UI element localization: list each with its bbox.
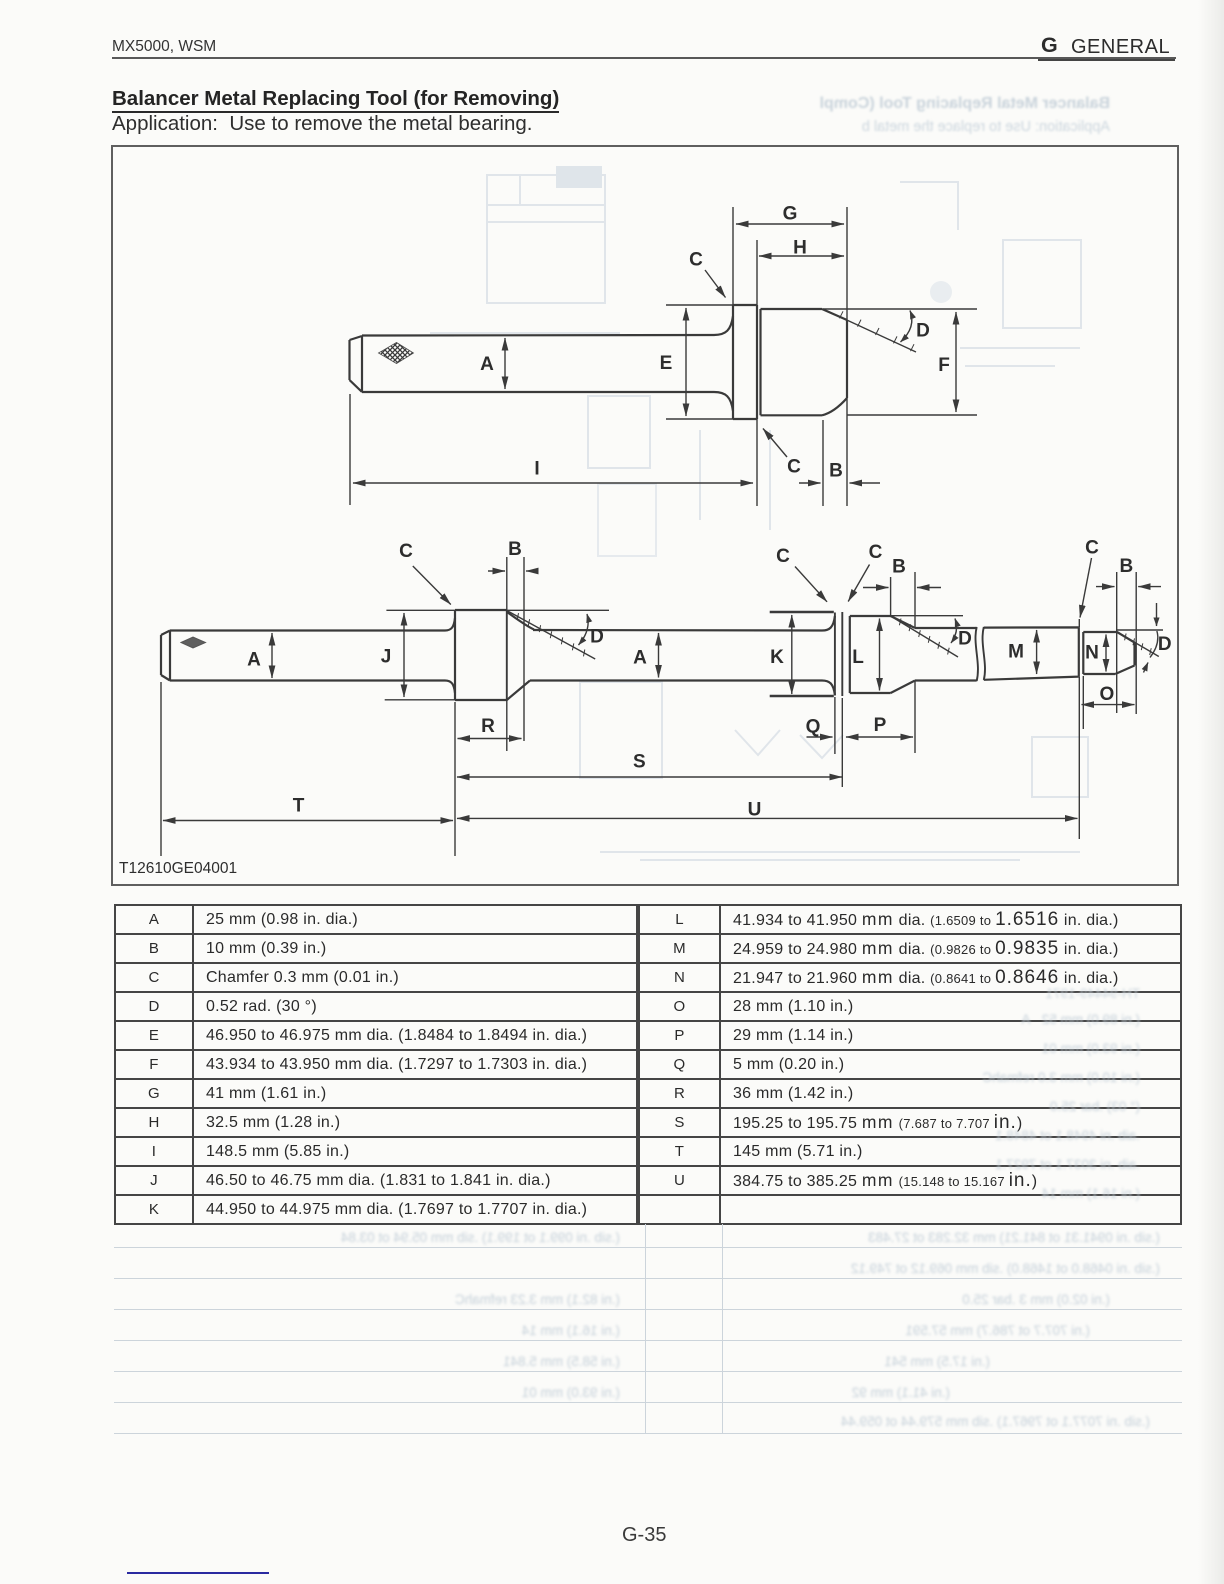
svg-text:H: H: [793, 238, 807, 259]
svg-text:O: O: [1100, 684, 1115, 705]
svg-text:M: M: [1008, 642, 1024, 663]
svg-text:B: B: [508, 539, 522, 560]
svg-text:Q: Q: [806, 717, 821, 738]
svg-text:N: N: [1085, 643, 1099, 664]
svg-text:D: D: [1158, 634, 1172, 655]
svg-text:S: S: [633, 751, 646, 772]
svg-text:T: T: [293, 796, 305, 817]
svg-text:A: A: [633, 648, 647, 669]
svg-text:D: D: [916, 321, 930, 342]
svg-text:L: L: [852, 647, 864, 668]
svg-text:A: A: [480, 354, 494, 375]
svg-text:C: C: [689, 250, 703, 271]
svg-text:D: D: [590, 627, 604, 648]
svg-text:U: U: [748, 799, 762, 820]
svg-text:J: J: [381, 647, 392, 668]
svg-text:R: R: [481, 716, 495, 737]
svg-text:K: K: [770, 647, 784, 668]
svg-text:B: B: [1120, 556, 1134, 577]
svg-text:C: C: [869, 542, 883, 563]
svg-text:B: B: [892, 557, 906, 578]
svg-text:C: C: [776, 546, 790, 567]
svg-text:P: P: [874, 715, 887, 736]
svg-text:C: C: [1085, 538, 1099, 559]
svg-text:B: B: [829, 461, 843, 482]
svg-text:F: F: [938, 355, 950, 376]
svg-text:G: G: [783, 204, 798, 225]
svg-text:D: D: [958, 628, 972, 649]
svg-text:I: I: [534, 459, 539, 480]
svg-text:C: C: [787, 457, 801, 478]
svg-text:A: A: [247, 650, 261, 671]
svg-text:C: C: [399, 541, 413, 562]
svg-text:E: E: [660, 353, 673, 374]
